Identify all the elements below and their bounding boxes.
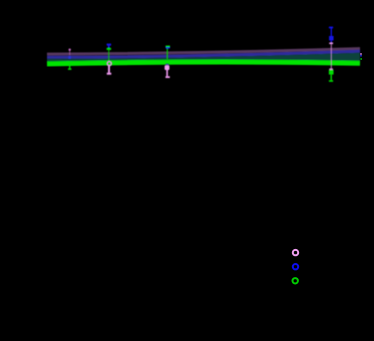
green fit line xyxy=(47,62,360,64)
cluster C : blue lower error cap xyxy=(166,64,169,66)
fit lines group xyxy=(47,49,360,64)
cluster D x=331.3 : blue point + upper error bar xyxy=(329,28,334,43)
cluster C x=167.2 : green upper error cap + stem xyxy=(166,46,170,59)
teal blend smear between blue and green lines xyxy=(47,53,360,62)
cluster A : blue point xyxy=(68,56,71,59)
cluster C : magenta point + lower error bar xyxy=(165,65,170,77)
legend xyxy=(293,250,299,284)
data point clusters xyxy=(68,28,334,82)
cluster B : green upper error cap + stem xyxy=(107,49,112,61)
magenta fit line xyxy=(47,49,360,55)
cluster A x=69.7 : magenta point with stem xyxy=(69,49,71,56)
line end pixels xyxy=(360,53,362,60)
legend blue ring xyxy=(293,264,298,269)
legend magenta ring xyxy=(293,250,298,255)
cluster B : magenta circle + lower error bar xyxy=(107,62,112,74)
cluster A : green lower error bar xyxy=(68,64,71,70)
cluster C : blue upper error cap xyxy=(166,47,170,49)
cluster D : green point + lower error bar xyxy=(329,70,334,81)
cluster D : magenta error bar (point hidden behind lines) xyxy=(329,43,333,69)
cluster B x=108.8 : blue upper error bar xyxy=(107,45,112,48)
legend green ring xyxy=(293,278,298,283)
blue fit line xyxy=(47,51,360,57)
